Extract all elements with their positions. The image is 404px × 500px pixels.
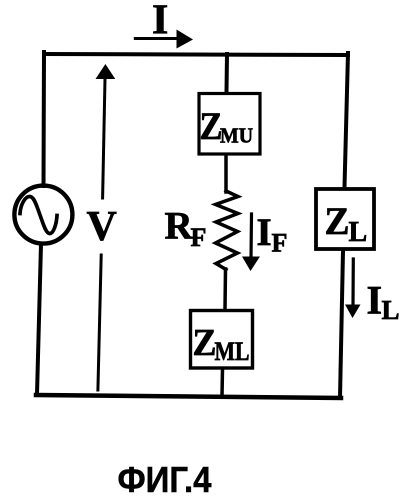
svg-text:I: I <box>152 0 168 44</box>
svg-text:L: L <box>349 217 368 248</box>
svg-text:ML: ML <box>215 337 250 366</box>
svg-text:Z: Z <box>325 200 350 243</box>
svg-text:R: R <box>165 205 194 248</box>
svg-text:V: V <box>87 204 117 250</box>
svg-text:ФИГ.4: ФИГ.4 <box>118 459 212 500</box>
svg-text:I: I <box>257 211 272 254</box>
svg-text:Z: Z <box>193 322 217 364</box>
svg-text:F: F <box>191 223 207 252</box>
svg-text:F: F <box>272 229 288 258</box>
svg-text:I: I <box>367 278 383 323</box>
svg-text:L: L <box>382 295 400 325</box>
svg-text:MU: MU <box>220 124 253 148</box>
